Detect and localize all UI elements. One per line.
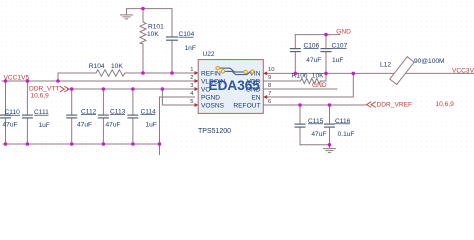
resistor R104 [89,63,125,76]
junction VIN net at C107/R106 [324,72,328,76]
wire C107 vertical [325,35,327,49]
EDA365 watermark logo [209,66,261,93]
svg-text:90@100M: 90@100M [414,58,445,65]
svg-text:PGND: PGND [201,94,220,101]
svg-text:1uF: 1uF [332,57,343,64]
pin arrow VIN [263,71,267,75]
wire PGND pin4 to bottom [160,97,195,144]
wire pin9 to R106 [264,80,301,82]
capacitor C113 [98,109,126,129]
svg-text:VCC3V3: VCC3V3 [452,68,474,75]
wire pin6 REFOUT to DDR_VREF [264,104,366,106]
ground bottom C115/C116 [323,145,336,153]
svg-text:U22: U22 [203,51,215,58]
ground top-left [120,9,133,19]
junction DDR_VTT at C112 [70,87,74,91]
junction DDR_VTT at C113 [102,87,106,91]
svg-text:6: 6 [268,99,271,105]
capacitor C107 [321,43,348,64]
junction REFIN net at R101 bottom [141,71,145,75]
svg-text:10,6,9: 10,6,9 [436,101,455,108]
capacitor C106 [290,43,322,64]
junction REFIN net at C104 bottom [170,71,174,75]
junction VCC1V5 at R104 tap [56,79,60,83]
svg-text:R104: R104 [89,63,105,70]
junction REFOUT net at C116 [328,103,332,107]
wire VOSNS tap [162,89,194,105]
svg-text:47uF: 47uF [306,57,321,64]
wire row1 R104 left to VCC1V5 tap [58,73,96,81]
resistor R101 [140,22,164,44]
wire C104 vertical bottom [171,40,173,73]
pin arrow VLDOIN [195,79,199,83]
wire DDR_VTT rail [68,88,195,90]
pin arrows left [195,71,268,107]
svg-text:VCC1V5: VCC1V5 [4,75,30,82]
svg-text:10K: 10K [147,31,159,38]
wire PGND stub below rail [159,144,161,155]
junction ground rail at C110 [4,142,8,146]
wire top gnd to C104 [127,8,173,10]
wire VIN row from pin10 to L12 [264,72,474,74]
port DDR_VREF [367,101,455,108]
wire pin7 EN to VIN [264,73,354,97]
svg-text:47uF: 47uF [311,131,326,138]
wire C106 vertical [294,35,296,49]
svg-text:DDR_VREF: DDR_VREF [377,101,413,108]
IC U22 TPS51200 [190,51,274,135]
svg-text:2: 2 [190,75,193,81]
svg-text:GND: GND [336,28,351,35]
svg-text:1nF: 1nF [185,45,196,52]
pin arrow VO [195,87,199,91]
wire R101 vertical top [142,9,144,22]
svg-text:REFIN: REFIN [201,70,221,77]
wire C113 vertical [102,89,104,115]
junction C115/C116 ground node [328,143,332,147]
svg-text:EDA365: EDA365 [209,78,261,93]
wire ground rail bottom [3,143,160,145]
junction ground rail at C113 [102,142,106,146]
wire pin8 GND [264,88,338,90]
capacitor C114 [127,109,156,129]
svg-text:R101: R101 [148,23,164,30]
wire row1 R104 right to pin1 REFIN [125,72,195,74]
svg-text:DDR_VTT: DDR_VTT [29,85,59,92]
wire C111 vertical [26,81,28,115]
capacitor C116 [324,118,354,138]
wire C104 vertical top [171,9,173,37]
port DDR_VTT [29,85,69,99]
svg-text:47uF: 47uF [3,121,18,128]
junction REFOUT net at C115 [298,103,302,107]
svg-text:8: 8 [268,83,271,89]
junction GND net at C107 top [324,33,328,37]
junction ground rail at PGND drop [158,142,162,146]
svg-text:L12: L12 [380,62,391,69]
junction ground rail at C111 [26,142,30,146]
capacitor C104 [166,31,196,52]
svg-text:7: 7 [268,91,271,97]
wire VCC1V5 rail [2,80,195,82]
wire R101 vertical bottom [142,44,144,73]
pin arrow EN [263,95,267,99]
wire C116 vertical [329,105,331,124]
svg-text:VOSNS: VOSNS [201,102,225,109]
resistor R106 [292,72,324,83]
svg-text:TPS51200: TPS51200 [198,128,231,135]
junction top GND-R101 node [141,7,145,11]
svg-text:47uF: 47uF [106,122,121,129]
junction VCC1V5 at C111 [26,79,30,83]
svg-text:1: 1 [190,67,193,73]
pin arrow REFIN [195,71,199,75]
svg-text:10K: 10K [111,63,123,70]
junction VCC1V5 at C110 [4,79,8,83]
svg-text:10K: 10K [312,72,324,79]
svg-text:GND: GND [312,82,327,89]
junction DDR_VTT at VOSNS tap [161,87,165,91]
svg-text:EN: EN [251,94,260,101]
inductor L12 ferrite bead [380,57,445,85]
wire R106 right to VIN [321,73,327,81]
junction ground rail at C112 [70,142,74,146]
junction VIN net at EN tap [352,72,356,76]
wire C112 vertical [71,89,73,115]
svg-text:10,6,9: 10,6,9 [31,93,50,100]
capacitor C111 [22,109,50,129]
junction ground rail at C114 [131,142,135,146]
svg-text:0.1uF: 0.1uF [338,131,355,138]
wire C115 vertical [299,105,301,124]
wire C110 vertical [5,81,7,115]
capacitor C112 [66,109,96,129]
svg-text:3: 3 [190,83,193,89]
capacitor C115 [295,118,327,138]
svg-text:1uF: 1uF [39,122,50,129]
svg-text:47uF: 47uF [77,122,92,129]
svg-text:9: 9 [268,75,271,81]
svg-text:10: 10 [268,67,274,73]
svg-text:5: 5 [190,99,193,105]
wire top GND net [295,34,340,36]
junction VIN net at C106 [294,72,298,76]
capacitor C110 [0,109,20,128]
wire C115 C116 join [300,144,330,146]
svg-text:1uF: 1uF [146,122,157,129]
pin arrow VOSNS [195,103,199,107]
wire C114 vertical [132,89,134,115]
svg-text:REFOUT: REFOUT [233,102,260,109]
junction DDR_VTT at C114 [131,87,135,91]
